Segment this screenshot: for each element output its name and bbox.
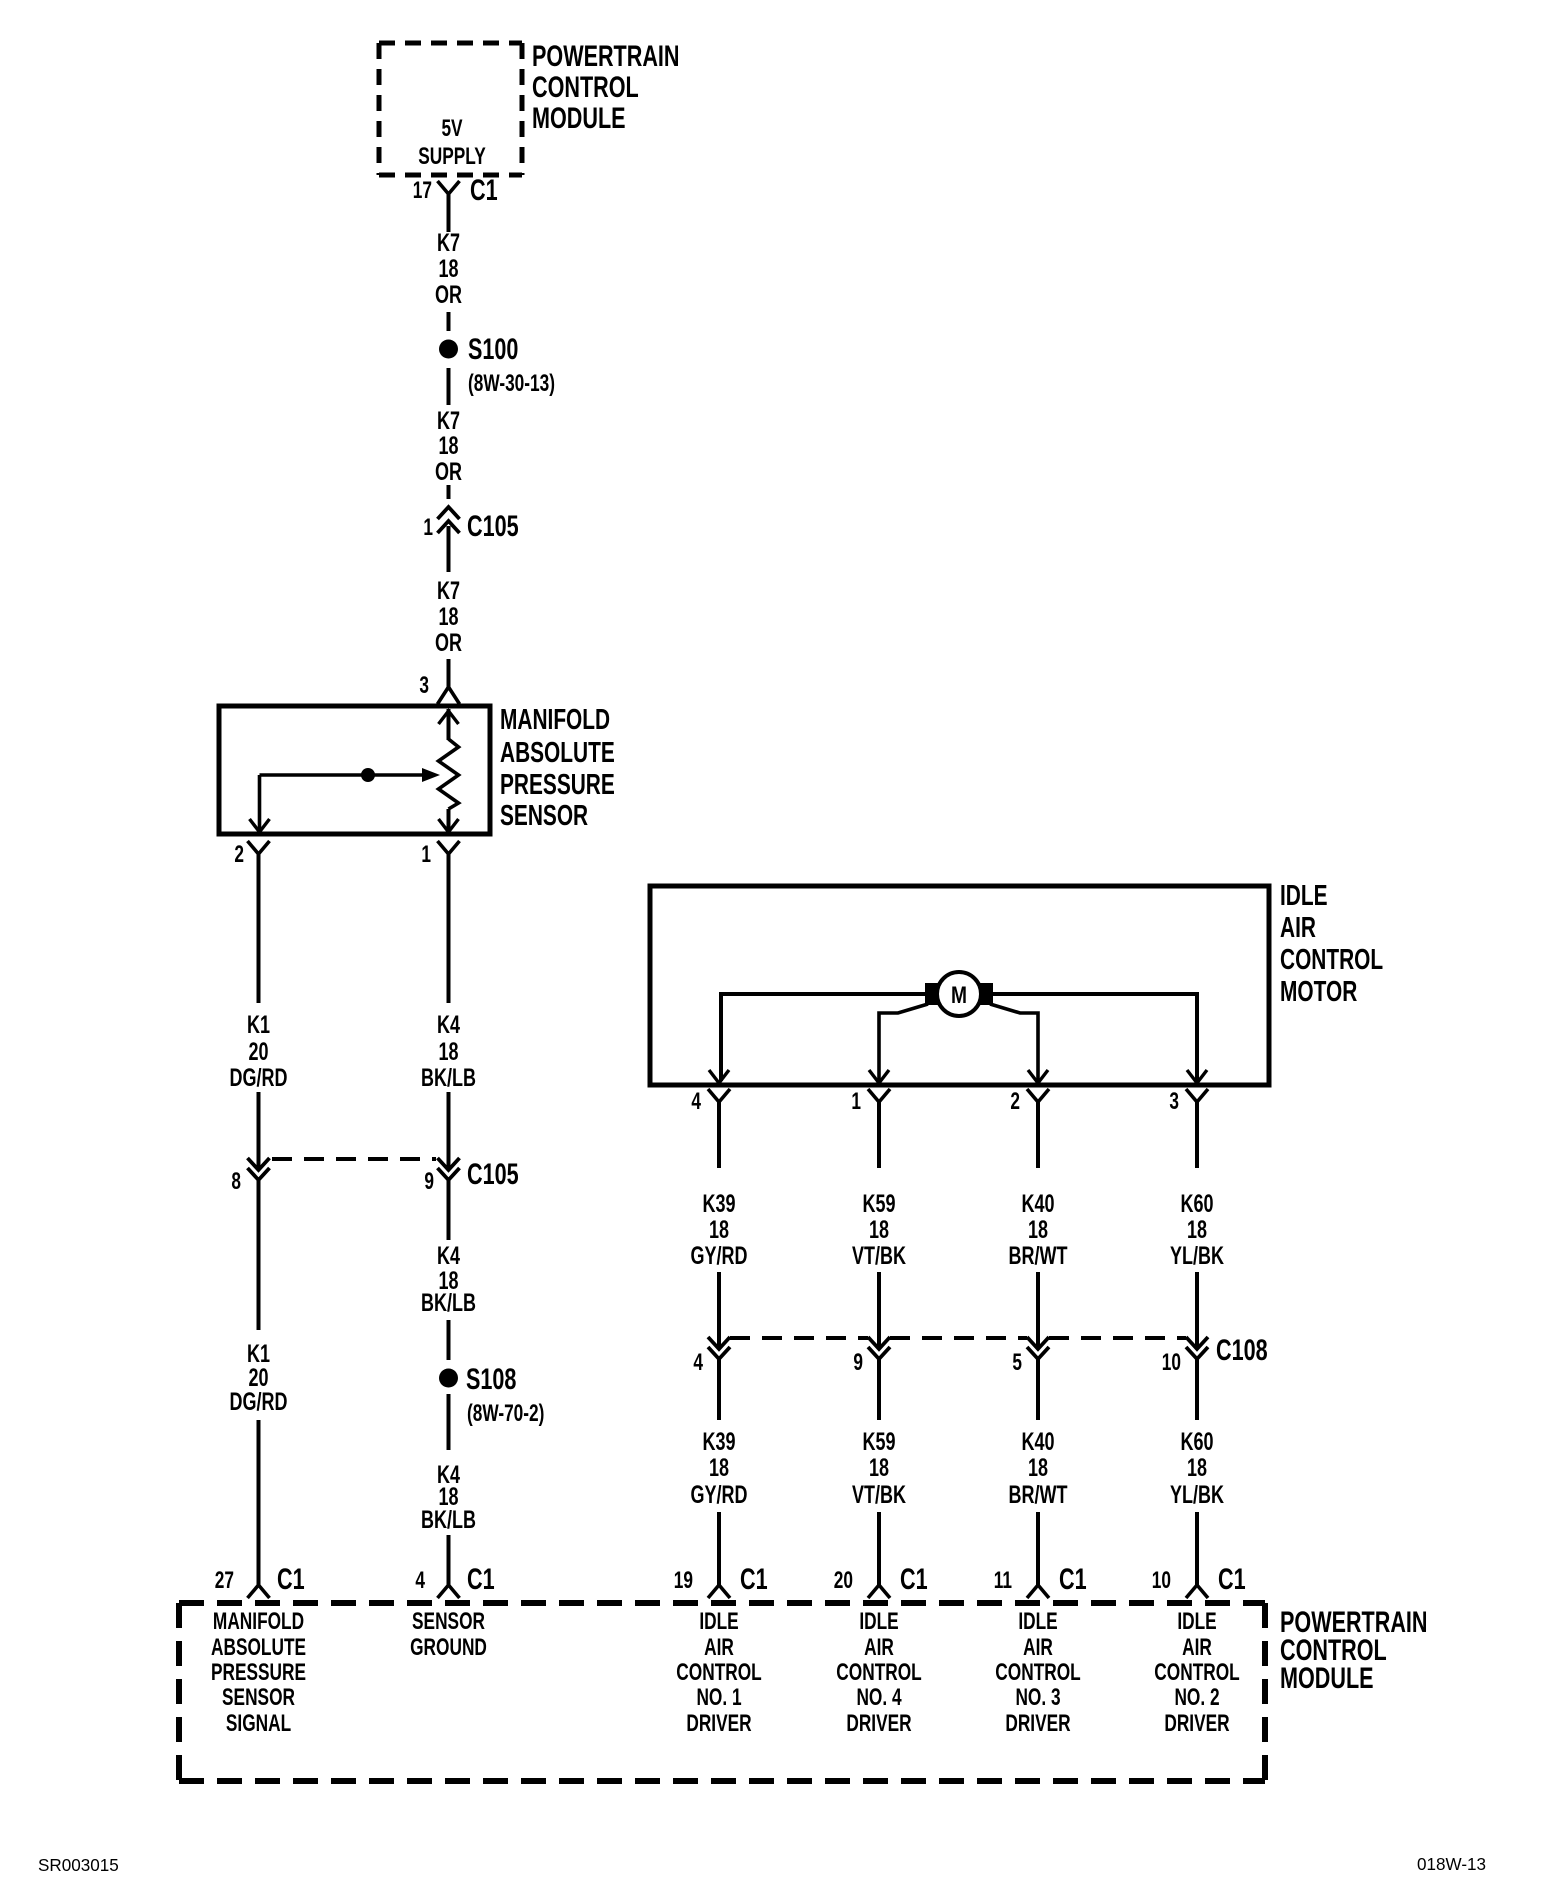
svg-text:YL/BK: YL/BK <box>1170 1480 1224 1509</box>
svg-text:GY/RD: GY/RD <box>691 1241 748 1270</box>
svg-text:4: 4 <box>415 1567 425 1593</box>
svg-text:19: 19 <box>674 1567 693 1593</box>
svg-text:AIR: AIR <box>1182 1634 1212 1660</box>
pin number 10 (C108) <box>1162 1349 1181 1375</box>
svg-text:C105: C105 <box>467 508 519 542</box>
dashed connector link line C108 <box>730 1336 1186 1340</box>
svg-text:18: 18 <box>709 1215 729 1244</box>
svg-text:NO. 2: NO. 2 <box>1174 1684 1219 1710</box>
svg-text:M: M <box>951 981 967 1009</box>
svg-text:20: 20 <box>248 1037 268 1066</box>
svg-text:S108: S108 <box>466 1361 516 1395</box>
splice S108 <box>439 1369 458 1388</box>
svg-text:18: 18 <box>869 1215 889 1244</box>
wire K7 tick above MAP sensor <box>447 659 451 689</box>
svg-text:9: 9 <box>424 1168 434 1194</box>
motor M symbol (idle air control motor) <box>925 972 993 1016</box>
arrow down at MAP pin 2 exit <box>250 819 270 832</box>
svg-text:K59: K59 <box>862 1189 895 1218</box>
wire K59 segment to PCM <box>877 1512 881 1586</box>
label IDLE AIR CONTROL MOTOR <box>1280 880 1383 1008</box>
svg-text:20: 20 <box>834 1567 853 1593</box>
pin number 9 (C108) <box>853 1349 863 1375</box>
wire label K39 18 GY/RD (upper) <box>691 1189 748 1270</box>
wire K1 segment above C105 pin 8 <box>257 1092 261 1170</box>
pin number 9 <box>424 1168 434 1194</box>
arrow down at bottom of potentiometer (pin 1 exit) <box>439 819 459 832</box>
svg-text:NO. 3: NO. 3 <box>1015 1684 1060 1710</box>
wire K4 tick above S108 <box>447 1320 451 1360</box>
wire K4 segment above C105 pin 9 <box>447 1092 451 1170</box>
svg-text:3: 3 <box>419 672 429 698</box>
svg-text:S100: S100 <box>468 331 518 365</box>
wire K40 segment above C108 <box>1036 1272 1040 1348</box>
svg-text:DG/RD: DG/RD <box>230 1063 288 1092</box>
label S108 <box>466 1361 516 1395</box>
svg-text:MANIFOLD: MANIFOLD <box>213 1608 304 1634</box>
svg-text:27: 27 <box>215 1567 234 1593</box>
wire label K60 18 YL/BK (upper) <box>1170 1189 1224 1270</box>
wire K4 segment below pin 1 <box>447 858 451 1003</box>
svg-text:18: 18 <box>1187 1453 1207 1482</box>
wire label K59 18 VT/BK (lower) <box>852 1427 906 1509</box>
pin number 19 (bottom C1) <box>674 1567 693 1593</box>
svg-text:2: 2 <box>234 841 244 867</box>
svg-text:SR003015: SR003015 <box>38 1855 119 1876</box>
wire label K40 18 BR/WT (lower) <box>1009 1427 1069 1509</box>
wire from motor left terminal to IAC pin 1 <box>879 1004 928 1081</box>
wire K7 tick above S100 <box>447 312 451 331</box>
svg-text:DRIVER: DRIVER <box>686 1710 751 1736</box>
svg-text:11: 11 <box>994 1567 1013 1593</box>
label MANIFOLD ABSOLUTE PRESSURE SENSOR <box>500 704 615 832</box>
wire K4 segment below S108 <box>447 1394 451 1450</box>
svg-text:DRIVER: DRIVER <box>1164 1710 1229 1736</box>
arrow at IAC pin 1 (inside box) <box>869 1070 889 1083</box>
connector label C105 (lower) <box>467 1156 519 1190</box>
wire K1 segment below C105 pin 8 <box>257 1180 261 1330</box>
svg-text:18: 18 <box>869 1453 889 1482</box>
connector label C1 (pin 4) <box>467 1561 495 1595</box>
svg-text:2: 2 <box>1010 1088 1020 1114</box>
wire label K1 20 DG/RD (lower) <box>230 1339 288 1416</box>
svg-text:OR: OR <box>435 280 462 309</box>
connector pin 2 of IAC motor <box>1027 1089 1049 1135</box>
svg-text:17: 17 <box>413 177 432 203</box>
wire top of potentiometer <box>447 709 451 740</box>
manifold absolute pressure sensor box <box>219 706 490 834</box>
wire label K4 18 BK/LB (middle) <box>421 1241 476 1317</box>
label IDLE AIR CONTROL NO. 4 DRIVER <box>836 1608 922 1736</box>
wire K7 tick above C105 <box>447 485 451 499</box>
wire K7 segment below C105 <box>447 526 451 572</box>
svg-text:PRESSURE: PRESSURE <box>500 769 615 801</box>
label MANIFOLD ABSOLUTE PRESSURE SENSOR SIGNAL <box>211 1608 306 1736</box>
connector label C105 (upper) <box>467 508 519 542</box>
wire K40 segment below IAC pin <box>1036 1105 1040 1168</box>
svg-text:BK/LB: BK/LB <box>421 1063 476 1092</box>
pin number 20 (bottom C1) <box>834 1567 853 1593</box>
wire bottom of potentiometer <box>447 809 451 830</box>
svg-text:K60: K60 <box>1180 1427 1213 1456</box>
svg-text:AIR: AIR <box>704 1634 734 1660</box>
label (8W-70-2) <box>467 1400 544 1426</box>
connector label C1 (pin 27) <box>277 1561 305 1595</box>
dashed connector link line C105 (pins 8-9) <box>272 1157 436 1161</box>
svg-text:018W-13: 018W-13 <box>1417 1854 1486 1875</box>
powertrain control module box (top, dashed) <box>379 43 522 175</box>
wire K60 segment below IAC pin <box>1195 1105 1199 1168</box>
label 5V SUPPLY (inside top PCM box) <box>441 115 462 141</box>
wire K39 segment below C108 <box>717 1358 721 1420</box>
pin number 3 <box>419 672 429 698</box>
svg-text:BR/WT: BR/WT <box>1009 1241 1069 1270</box>
label IDLE AIR CONTROL NO. 3 DRIVER <box>995 1608 1081 1736</box>
svg-text:AIR: AIR <box>1023 1634 1053 1660</box>
wire K40 segment below C108 <box>1036 1358 1040 1420</box>
connector label C1 (pin 19) <box>740 1561 768 1595</box>
svg-text:BK/LB: BK/LB <box>421 1505 476 1534</box>
label POWERTRAIN CONTROL MODULE (top) <box>532 38 680 134</box>
pin number 4 (C108) <box>693 1349 703 1375</box>
svg-text:NO. 1: NO. 1 <box>696 1684 741 1710</box>
wire label K7 18 OR (lower) <box>435 576 462 657</box>
svg-text:IDLE: IDLE <box>859 1608 898 1634</box>
svg-text:K40: K40 <box>1021 1189 1054 1218</box>
connector pin 27 C1 into PCM <box>248 1585 270 1598</box>
label (8W-30-13) <box>468 370 555 396</box>
connector label C1 (pin 11) <box>1059 1561 1087 1595</box>
svg-text:K60: K60 <box>1180 1189 1213 1218</box>
wire label K59 18 VT/BK (upper) <box>852 1189 906 1270</box>
footer SR003015 <box>38 1855 119 1876</box>
svg-text:CONTROL: CONTROL <box>836 1659 922 1685</box>
connector pin 3 into MAP sensor <box>438 687 460 704</box>
pin number 5 (C108) <box>1012 1349 1022 1375</box>
pin number 11 (bottom C1) <box>994 1567 1013 1593</box>
wire from motor right terminal to IAC pin 2 <box>990 1004 1038 1081</box>
connector pin 20 C1 into PCM <box>868 1585 890 1598</box>
svg-text:C1: C1 <box>277 1561 305 1595</box>
svg-text:SENSOR: SENSOR <box>412 1608 485 1634</box>
wire K1 segment below pin 2 <box>257 858 261 1003</box>
label IDLE AIR CONTROL NO. 2 DRIVER <box>1154 1608 1240 1736</box>
svg-text:(8W-30-13): (8W-30-13) <box>468 370 555 396</box>
connector label C1 (pin 20) <box>900 1561 928 1595</box>
svg-text:18: 18 <box>438 602 458 631</box>
pin number 17 <box>413 177 432 203</box>
connector pin 2 of MAP sensor <box>248 841 270 887</box>
wire K60 segment below C108 <box>1195 1358 1199 1420</box>
svg-text:3: 3 <box>1169 1088 1179 1114</box>
svg-text:IDLE: IDLE <box>699 1608 738 1634</box>
footer 018W-13 <box>1417 1854 1486 1875</box>
svg-text:MODULE: MODULE <box>1280 1660 1374 1694</box>
svg-text:18: 18 <box>1028 1453 1048 1482</box>
connector C105 pin 9 (double chevron) <box>438 1158 460 1180</box>
wire label K60 18 YL/BK (lower) <box>1170 1427 1224 1509</box>
svg-text:PRESSURE: PRESSURE <box>211 1659 306 1685</box>
svg-text:BK/LB: BK/LB <box>421 1288 476 1317</box>
pin number 2 <box>234 841 244 867</box>
svg-text:C108: C108 <box>1216 1332 1268 1366</box>
svg-text:MANIFOLD: MANIFOLD <box>500 704 610 736</box>
connector pin 10 C1 into PCM <box>1186 1585 1208 1598</box>
connector pin 1 of IAC motor <box>868 1089 890 1135</box>
connector pin 17 C1 (PCM 5V supply output) <box>438 181 460 227</box>
pin number 1 (C105) <box>423 514 433 540</box>
wire label K7 18 OR (middle) <box>435 406 462 486</box>
label POWERTRAIN CONTROL MODULE (bottom) <box>1280 1604 1428 1694</box>
svg-text:GROUND: GROUND <box>410 1634 487 1660</box>
pin number 8 <box>231 1168 241 1194</box>
connector pin 4 of IAC motor <box>708 1089 730 1135</box>
svg-text:CONTROL: CONTROL <box>1154 1659 1240 1685</box>
svg-text:10: 10 <box>1152 1567 1171 1593</box>
svg-text:8: 8 <box>231 1168 241 1194</box>
wire from motor left terminal to IAC pin 4 <box>721 994 925 1081</box>
svg-text:MODULE: MODULE <box>532 100 626 134</box>
connector pin 11 C1 into PCM <box>1027 1585 1049 1598</box>
wire label K4 18 BK/LB (lower) <box>421 1460 476 1534</box>
svg-text:K7: K7 <box>437 576 460 605</box>
svg-text:IDLE: IDLE <box>1177 1608 1216 1634</box>
svg-text:K7: K7 <box>437 228 460 257</box>
svg-text:SIGNAL: SIGNAL <box>226 1710 291 1736</box>
wire K7 segment below C1 <box>447 214 451 232</box>
svg-text:18: 18 <box>1028 1215 1048 1244</box>
powertrain control module box (bottom, dashed) <box>179 1603 1265 1781</box>
svg-text:C1: C1 <box>467 1561 495 1595</box>
connector pin 4 C1 into PCM <box>438 1585 460 1598</box>
svg-text:VT/BK: VT/BK <box>852 1480 906 1509</box>
svg-text:18: 18 <box>438 431 458 460</box>
svg-text:5: 5 <box>1012 1349 1022 1375</box>
arrow up at top of MAP potentiometer <box>439 711 459 724</box>
arrow at IAC pin 4 (inside box) <box>709 1070 729 1083</box>
connector C105 pin 1 (double chevron) <box>438 507 460 533</box>
wire K4 segment to PCM pin 4 <box>447 1535 451 1586</box>
label S100 <box>468 331 518 365</box>
svg-text:SUPPLY: SUPPLY <box>418 143 486 169</box>
wire K7 segment below S100 <box>447 368 451 405</box>
svg-text:C1: C1 <box>740 1561 768 1595</box>
wire K60 segment to PCM <box>1195 1512 1199 1586</box>
svg-text:C105: C105 <box>467 1156 519 1190</box>
connector C108 pin 10 (double chevron) <box>1186 1337 1208 1359</box>
svg-text:IDLE: IDLE <box>1280 880 1328 912</box>
svg-text:(8W-70-2): (8W-70-2) <box>467 1400 544 1426</box>
svg-text:1: 1 <box>423 514 433 540</box>
svg-text:18: 18 <box>709 1453 729 1482</box>
pin number 4 (IAC) <box>691 1088 701 1114</box>
wire label K39 18 GY/RD (lower) <box>691 1427 748 1509</box>
connector C108 pin 4 (double chevron) <box>708 1337 730 1359</box>
svg-text:AIR: AIR <box>864 1634 894 1660</box>
pin number 27 <box>215 1567 234 1593</box>
wire K40 segment to PCM <box>1036 1512 1040 1586</box>
svg-text:18: 18 <box>438 254 458 283</box>
wire K60 segment above C108 <box>1195 1272 1199 1348</box>
wire K1 segment to PCM pin 27 <box>257 1420 261 1586</box>
svg-text:C1: C1 <box>1218 1561 1246 1595</box>
svg-text:AIR: AIR <box>1280 912 1316 944</box>
svg-text:K40: K40 <box>1021 1427 1054 1456</box>
connector C108 pin 5 (double chevron) <box>1027 1337 1049 1359</box>
pin number 4 (C1) <box>415 1567 425 1593</box>
wire K59 segment below IAC pin <box>877 1105 881 1168</box>
pin number 10 (bottom C1) <box>1152 1567 1171 1593</box>
svg-text:K1: K1 <box>247 1010 270 1039</box>
svg-text:DG/RD: DG/RD <box>230 1387 288 1416</box>
svg-text:YL/BK: YL/BK <box>1170 1241 1224 1270</box>
svg-text:SENSOR: SENSOR <box>222 1684 295 1710</box>
svg-text:CONTROL: CONTROL <box>532 69 639 103</box>
svg-text:K4: K4 <box>437 1010 460 1039</box>
wire from motor right terminal to IAC pin 3 <box>993 994 1197 1081</box>
wire label K1 20 DG/RD (upper) <box>230 1010 288 1092</box>
svg-text:9: 9 <box>853 1349 863 1375</box>
svg-text:5V: 5V <box>441 115 462 141</box>
pin number 2 (IAC) <box>1010 1088 1020 1114</box>
potentiometer resistive element (MAP sensor) <box>439 739 459 809</box>
connector C108 pin 9 (double chevron) <box>868 1337 890 1359</box>
svg-text:K59: K59 <box>862 1427 895 1456</box>
pin number 1 (MAP) <box>421 841 431 867</box>
junction dot on wiper arm <box>361 768 375 782</box>
arrow at IAC pin 2 (inside box) <box>1028 1070 1048 1083</box>
svg-text:DRIVER: DRIVER <box>1005 1710 1070 1736</box>
connector pin 3 of IAC motor <box>1186 1089 1208 1135</box>
svg-text:18: 18 <box>1187 1215 1207 1244</box>
wire K39 segment below IAC pin <box>717 1105 721 1168</box>
svg-text:1: 1 <box>851 1088 861 1114</box>
svg-text:DRIVER: DRIVER <box>846 1710 911 1736</box>
svg-text:GY/RD: GY/RD <box>691 1480 748 1509</box>
svg-text:18: 18 <box>438 1037 458 1066</box>
connector label C108 <box>1216 1332 1268 1366</box>
arrow at IAC pin 3 (inside box) <box>1187 1070 1207 1083</box>
svg-text:4: 4 <box>691 1088 701 1114</box>
wire label K7 18 OR (upper) <box>435 228 462 309</box>
svg-text:MOTOR: MOTOR <box>1280 976 1357 1008</box>
svg-text:4: 4 <box>693 1349 703 1375</box>
connector pin 19 C1 into PCM <box>708 1585 730 1598</box>
wiper branch wire down to pin 2 <box>258 775 262 830</box>
svg-text:CONTROL: CONTROL <box>995 1659 1081 1685</box>
wire label K4 18 BK/LB (upper) <box>421 1010 476 1092</box>
label SENSOR GROUND <box>410 1608 487 1660</box>
splice S100 <box>439 340 458 359</box>
connector label C1 (pin 10) <box>1218 1561 1246 1595</box>
connector C105 pin 8 (double chevron) <box>248 1158 270 1180</box>
wire K39 segment above C108 <box>717 1272 721 1348</box>
wiper arm of MAP potentiometer <box>260 768 441 782</box>
svg-text:K39: K39 <box>702 1189 735 1218</box>
svg-text:C1: C1 <box>900 1561 928 1595</box>
pin number 1 (IAC) <box>851 1088 861 1114</box>
svg-text:1: 1 <box>421 841 431 867</box>
svg-text:POWERTRAIN: POWERTRAIN <box>532 38 680 72</box>
wire K4 segment below C105 pin 9 <box>447 1180 451 1240</box>
svg-text:IDLE: IDLE <box>1018 1608 1057 1634</box>
svg-text:BR/WT: BR/WT <box>1009 1480 1069 1509</box>
svg-text:CONTROL: CONTROL <box>1280 944 1383 976</box>
wire K59 segment above C108 <box>877 1272 881 1348</box>
wire K39 segment to PCM <box>717 1512 721 1586</box>
svg-text:ABSOLUTE: ABSOLUTE <box>211 1634 306 1660</box>
label IDLE AIR CONTROL NO. 1 DRIVER <box>676 1608 762 1736</box>
idle air control motor box <box>650 886 1269 1085</box>
wire K59 segment below C108 <box>877 1358 881 1420</box>
svg-text:NO. 4: NO. 4 <box>856 1684 901 1710</box>
svg-text:OR: OR <box>435 457 462 486</box>
svg-text:C1: C1 <box>1059 1561 1087 1595</box>
svg-text:SENSOR: SENSOR <box>500 800 588 832</box>
svg-text:OR: OR <box>435 628 462 657</box>
wire label K40 18 BR/WT (upper) <box>1009 1189 1069 1270</box>
connector label C1 (top) <box>470 172 498 206</box>
svg-text:10: 10 <box>1162 1349 1181 1375</box>
svg-text:ABSOLUTE: ABSOLUTE <box>500 737 615 769</box>
pin number 3 (IAC) <box>1169 1088 1179 1114</box>
svg-text:K39: K39 <box>702 1427 735 1456</box>
svg-text:CONTROL: CONTROL <box>676 1659 762 1685</box>
svg-text:VT/BK: VT/BK <box>852 1241 906 1270</box>
connector pin 1 of MAP sensor <box>438 841 460 887</box>
svg-text:C1: C1 <box>470 172 498 206</box>
